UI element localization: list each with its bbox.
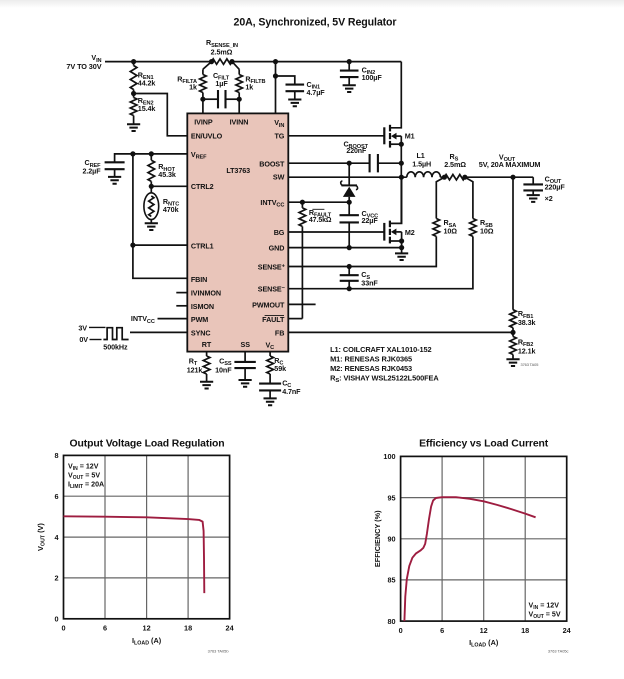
wire GND	[288, 247, 401, 249]
plot frame	[401, 456, 567, 621]
svg-text:2.5mΩ: 2.5mΩ	[444, 160, 466, 169]
resistor REN1	[133, 62, 135, 66]
node VIN rail junction	[273, 59, 278, 64]
capacitor CFILT	[203, 98, 218, 100]
node CTRL1 junction	[130, 243, 135, 248]
node INTVCC diode	[347, 200, 352, 205]
wire SENSE-	[288, 236, 473, 288]
svg-text:6: 6	[54, 492, 58, 501]
wire TG	[288, 135, 384, 137]
capacitor CIN2	[348, 62, 350, 71]
svg-text:24: 24	[563, 626, 572, 635]
grid	[401, 456, 567, 621]
svg-text:SW: SW	[273, 172, 285, 181]
svg-text:Efficiency vs Load Current: Efficiency vs Load Current	[419, 439, 549, 450]
resistor RSB	[470, 219, 477, 237]
svg-text:100: 100	[383, 452, 395, 461]
node M1 source	[399, 142, 404, 147]
svg-text:3V: 3V	[78, 324, 87, 333]
svg-text:85: 85	[387, 576, 395, 585]
svg-text:FB: FB	[275, 329, 284, 338]
wire diode from BOOST	[348, 163, 350, 185]
thermistor RNTC	[150, 186, 152, 193]
svg-text:59k: 59k	[274, 364, 286, 373]
transistor M2	[383, 223, 385, 241]
node RS left	[442, 175, 447, 180]
svg-text:BOOST: BOOST	[259, 160, 285, 169]
svg-text:0: 0	[399, 626, 403, 635]
svg-text:3763 TA05: 3763 TA05	[521, 362, 539, 367]
node RSENSE_IN right	[229, 59, 234, 64]
svg-text:2.2µF: 2.2µF	[82, 167, 101, 176]
svg-text:M1: M1	[405, 131, 415, 140]
node VOUT junction	[510, 175, 515, 180]
grid	[64, 455, 230, 618]
capacitor CREF	[105, 162, 125, 169]
capacitor COUT	[532, 177, 534, 184]
node VREF-CTRL1 tap	[130, 151, 135, 156]
wire M1 drain	[391, 62, 401, 128]
svg-text:5V, 20A MAXIMUM: 5V, 20A MAXIMUM	[479, 160, 541, 169]
capacitor CBOOST	[370, 154, 378, 172]
svg-text:10nF: 10nF	[215, 365, 232, 374]
node CBOOST right	[399, 161, 404, 166]
svg-text:EFFICIENCY (%): EFFICIENCY (%)	[373, 510, 382, 567]
ground CIN2	[343, 85, 356, 92]
svg-text:SENSE+: SENSE+	[258, 263, 286, 272]
node M2 source	[399, 238, 404, 243]
node RHOT tap	[149, 151, 154, 156]
wire M2 source gnd	[401, 241, 403, 253]
svg-text:IVINN: IVINN	[230, 118, 249, 127]
plot frame	[64, 455, 230, 618]
wire CTRL2	[151, 185, 187, 187]
resistor RSA	[433, 219, 440, 237]
svg-text:100µF: 100µF	[362, 73, 383, 82]
wire SENSE+	[288, 236, 436, 266]
svg-text:FBIN: FBIN	[191, 275, 207, 284]
svg-text:Output Voltage Load Regulation: Output Voltage Load Regulation	[70, 439, 225, 450]
wire IVINMON stub	[176, 292, 187, 294]
wire CTRL1 vertical	[132, 154, 134, 245]
svg-text:33nF: 33nF	[361, 278, 378, 287]
capacitor CS	[348, 267, 350, 276]
svg-text:SENSE−: SENSE−	[258, 285, 286, 294]
curve	[64, 516, 205, 593]
resistor RFB1	[510, 310, 517, 328]
svg-text:M1: RENESAS RJK0365: M1: RENESAS RJK0365	[330, 355, 412, 364]
capacitor CVCC	[348, 202, 350, 215]
svg-text:CTRL2: CTRL2	[191, 182, 214, 191]
capacitor CSS	[244, 352, 246, 362]
svg-text:PWM: PWM	[191, 315, 208, 324]
svg-text:24: 24	[226, 624, 235, 633]
capacitor CIN1	[276, 76, 295, 85]
wire VREF	[115, 154, 188, 162]
svg-text:0: 0	[54, 615, 58, 624]
ground REN2	[127, 124, 140, 131]
svg-text:0: 0	[61, 624, 65, 633]
node CIN2 junction	[347, 59, 352, 64]
svg-text:22µF: 22µF	[362, 216, 379, 225]
wire IVINP	[202, 99, 204, 113]
svg-text:TG: TG	[275, 132, 285, 141]
svg-text:121k: 121k	[187, 365, 203, 374]
transistor M1	[383, 127, 385, 144]
resistor RFB2	[512, 332, 514, 336]
svg-text:6: 6	[440, 626, 444, 635]
svg-text:×2: ×2	[545, 194, 553, 203]
wire VIN pin	[275, 62, 277, 114]
svg-text:10Ω: 10Ω	[480, 226, 494, 235]
inductor L1	[407, 172, 441, 177]
resistor RS	[444, 175, 465, 180]
resistor RC	[269, 352, 271, 357]
wire EN/UVLO	[134, 94, 188, 136]
wire RFILTA diagonal	[203, 62, 212, 70]
resistor RHOT	[150, 154, 152, 160]
wire BOOST	[288, 162, 369, 164]
svg-text:3763 TA05b: 3763 TA05b	[208, 649, 229, 654]
svg-text:RT: RT	[202, 340, 212, 349]
svg-text:500kHz: 500kHz	[103, 342, 128, 351]
resistor RFAULT	[301, 202, 303, 208]
svg-text:15.4k: 15.4k	[138, 104, 156, 113]
node CBOOST tap	[347, 161, 352, 166]
svg-text:IVINMON: IVINMON	[191, 289, 221, 298]
svg-text:7V TO 30V: 7V TO 30V	[66, 62, 101, 71]
svg-text:12.1k: 12.1k	[518, 346, 536, 355]
svg-text:1µF: 1µF	[215, 79, 228, 88]
wire L1-RS	[440, 176, 444, 178]
resistor REN2	[133, 94, 135, 98]
svg-text:4.7µF: 4.7µF	[307, 88, 326, 97]
node CS bottom	[347, 286, 352, 291]
wire M1 source to SW	[400, 136, 402, 223]
ground RFB2	[506, 359, 519, 366]
svg-text:2: 2	[54, 574, 58, 583]
wire CTRL1	[133, 244, 187, 246]
curve	[404, 497, 535, 621]
node RSENSE_IN left	[209, 59, 214, 64]
wire RFILTB diagonal	[232, 62, 239, 70]
ground CREF	[108, 177, 121, 184]
ground CC	[264, 398, 277, 405]
svg-text:8: 8	[54, 451, 58, 460]
node junction REN1/REN2	[131, 91, 136, 96]
resistor RFILTB	[238, 69, 240, 74]
svg-text:FAULT: FAULT	[262, 315, 285, 324]
svg-text:LT3763: LT3763	[226, 166, 250, 175]
op-amp U1 LT3763 body	[187, 113, 288, 351]
svg-text:45.3k: 45.3k	[158, 170, 176, 179]
node SW junction	[399, 175, 404, 180]
svg-text:0V: 0V	[79, 335, 88, 344]
svg-text:95: 95	[387, 493, 395, 502]
resistor RFILTA	[202, 69, 204, 74]
svg-text:ISMON: ISMON	[191, 302, 214, 311]
wire SW	[288, 176, 407, 178]
node RFILTA bottom	[200, 97, 205, 102]
node RFAULT tap	[300, 200, 305, 205]
svg-text:38.3k: 38.3k	[518, 318, 536, 327]
diode D1 schottky	[341, 184, 357, 186]
svg-text:12: 12	[143, 624, 151, 633]
node junction REN1	[131, 59, 136, 64]
svg-text:EN/UVLO: EN/UVLO	[191, 132, 223, 141]
node CIN1 junction	[273, 73, 278, 78]
svg-text:18: 18	[184, 624, 192, 633]
svg-text:PWMOUT: PWMOUT	[252, 300, 285, 309]
svg-text:12: 12	[480, 626, 488, 635]
svg-text:220nF: 220nF	[346, 148, 367, 155]
svg-text:470k: 470k	[163, 205, 179, 214]
svg-text:4.7nF: 4.7nF	[282, 387, 301, 396]
wire PWM	[158, 318, 188, 320]
svg-text:M2: RENESAS RJK0453: M2: RENESAS RJK0453	[330, 364, 412, 373]
svg-text:47.5kΩ: 47.5kΩ	[309, 217, 332, 224]
svg-text:L1: COILCRAFT XAL1010-152: L1: COILCRAFT XAL1010-152	[330, 345, 431, 354]
wire BG	[288, 231, 384, 233]
svg-text:20A, Synchronized, 5V Regulato: 20A, Synchronized, 5V Regulator	[234, 17, 397, 29]
svg-text:2.5mΩ: 2.5mΩ	[211, 48, 233, 57]
svg-text:90: 90	[387, 535, 395, 544]
svg-text:3763 TA05c: 3763 TA05c	[548, 649, 569, 654]
svg-text:1.5µH: 1.5µH	[412, 159, 431, 168]
node FB junction	[510, 330, 515, 335]
svg-text:IVINP: IVINP	[194, 118, 213, 127]
wire ISMON stub	[176, 305, 187, 307]
node M2 gnd junction	[399, 245, 404, 250]
wire VOUT	[465, 176, 533, 178]
node CTRL2 junction	[149, 184, 154, 189]
wire FBIN	[133, 245, 187, 278]
svg-text:SYNC: SYNC	[191, 329, 211, 338]
ground RT	[200, 382, 213, 389]
wire VOUT to RFB1	[512, 177, 514, 310]
svg-text:BG: BG	[274, 228, 285, 237]
svg-text:44.2k: 44.2k	[138, 79, 156, 88]
ground COUT	[527, 195, 540, 202]
wire INTVCC	[288, 201, 349, 203]
ground CSS	[239, 380, 252, 387]
resistor RSENSE_IN	[212, 59, 233, 64]
ground RNTC	[145, 223, 158, 230]
wire SYNC	[130, 331, 187, 333]
svg-text:10Ω: 10Ω	[444, 226, 458, 235]
wire IVINN	[238, 99, 240, 113]
capacitor CC	[259, 384, 281, 391]
svg-text:1k: 1k	[189, 83, 197, 92]
svg-text:220µF: 220µF	[545, 183, 566, 192]
node RFILTB bottom	[237, 97, 242, 102]
wire VIN rail	[105, 61, 212, 63]
node CS top	[347, 264, 352, 269]
svg-text:18: 18	[521, 626, 529, 635]
resistor RT	[206, 352, 208, 357]
svg-text:1k: 1k	[245, 83, 253, 92]
svg-text:CTRL1: CTRL1	[191, 241, 214, 250]
svg-text:GND: GND	[269, 243, 285, 252]
node CVCC bottom	[347, 245, 352, 250]
wire M2 drain	[390, 177, 402, 223]
node RS right	[462, 175, 467, 180]
wire FB	[288, 331, 513, 333]
svg-text:6: 6	[103, 624, 107, 633]
ground CIN1	[288, 100, 301, 107]
ground M2	[395, 253, 408, 260]
wire PWMOUT stub	[288, 303, 315, 305]
svg-text:M2: M2	[405, 228, 415, 237]
svg-text:80: 80	[387, 617, 395, 626]
svg-text:SS: SS	[241, 340, 251, 349]
